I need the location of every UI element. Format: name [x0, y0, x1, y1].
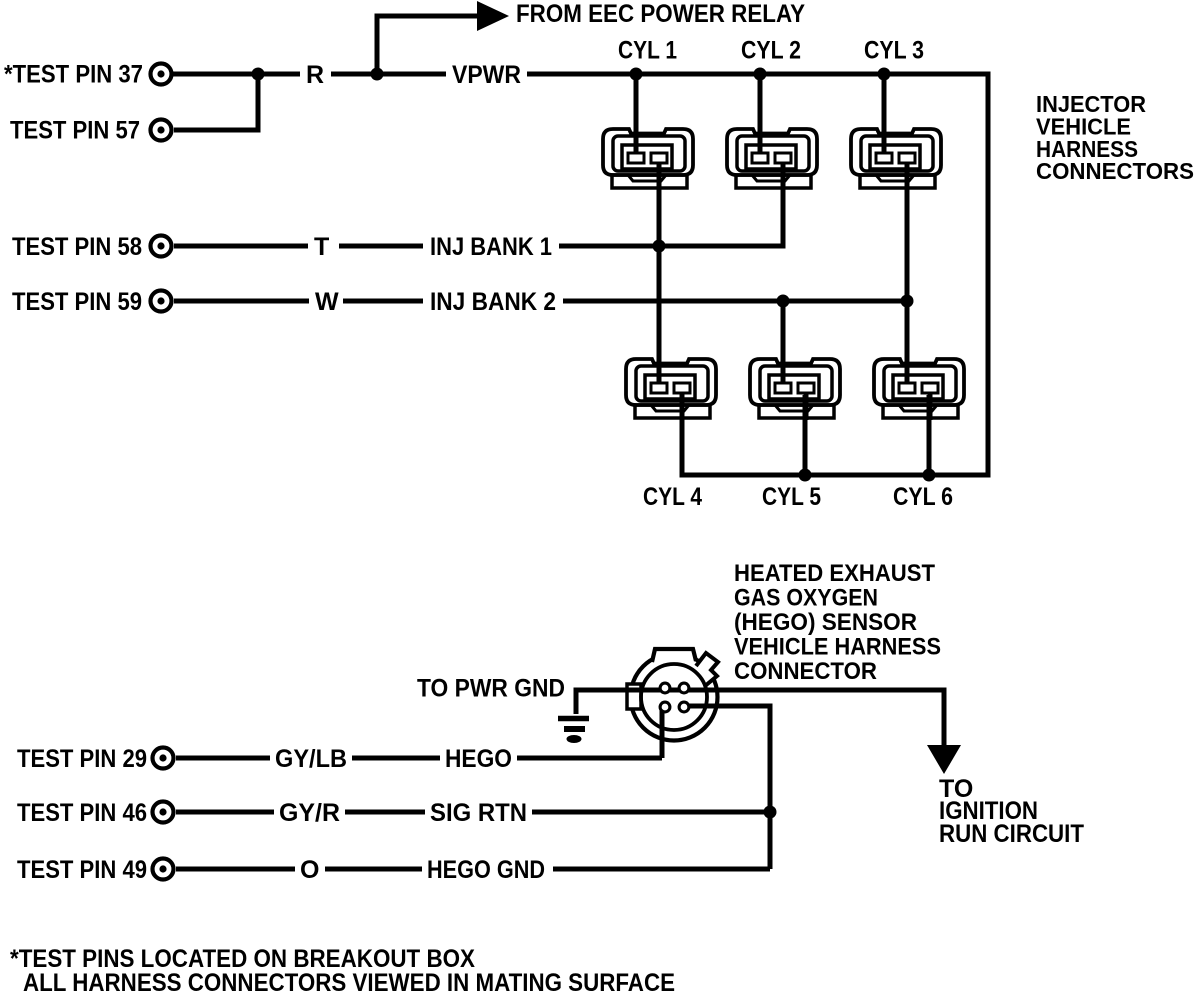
- svg-text:CYL 6: CYL 6: [893, 483, 953, 511]
- svg-text:INJ BANK 1: INJ BANK 1: [430, 233, 552, 261]
- svg-text:VPWR: VPWR: [452, 61, 521, 89]
- svg-text:T: T: [314, 233, 329, 261]
- svg-text:RUN CIRCUIT: RUN CIRCUIT: [939, 820, 1084, 848]
- svg-text:W: W: [315, 288, 339, 316]
- svg-text:FROM EEC POWER RELAY: FROM EEC POWER RELAY: [516, 0, 805, 28]
- svg-text:ALL HARNESS CONNECTORS VIEWED: ALL HARNESS CONNECTORS VIEWED IN MATING …: [23, 969, 675, 994]
- svg-text:TEST PIN 49: TEST PIN 49: [17, 856, 147, 884]
- svg-text:GY/R: GY/R: [279, 799, 340, 827]
- svg-text:CONNECTORS: CONNECTORS: [1036, 158, 1194, 184]
- svg-text:GAS OXYGEN: GAS OXYGEN: [734, 585, 878, 612]
- svg-text:O: O: [300, 856, 319, 884]
- svg-text:HEATED EXHAUST: HEATED EXHAUST: [734, 560, 935, 587]
- svg-text:*TEST PIN 37: *TEST PIN 37: [4, 61, 143, 89]
- svg-text:TO PWR GND: TO PWR GND: [417, 675, 565, 703]
- svg-text:TEST PIN 58: TEST PIN 58: [12, 233, 142, 261]
- svg-text:TEST PIN 46: TEST PIN 46: [17, 799, 147, 827]
- svg-text:GY/LB: GY/LB: [275, 745, 347, 773]
- svg-text:CYL 5: CYL 5: [762, 483, 821, 511]
- svg-text:CYL 1: CYL 1: [618, 37, 677, 65]
- svg-text:TEST PIN 29: TEST PIN 29: [17, 745, 147, 773]
- svg-text:(HEGO) SENSOR: (HEGO) SENSOR: [734, 609, 917, 636]
- svg-text:CYL 2: CYL 2: [741, 37, 801, 65]
- svg-text:VEHICLE HARNESS: VEHICLE HARNESS: [734, 634, 941, 661]
- svg-text:HEGO: HEGO: [445, 745, 512, 773]
- svg-text:INJ BANK 2: INJ BANK 2: [430, 288, 556, 316]
- svg-text:SIG RTN: SIG RTN: [430, 799, 527, 827]
- svg-text:CONNECTOR: CONNECTOR: [734, 658, 877, 685]
- svg-text:TEST PIN 57: TEST PIN 57: [10, 117, 140, 145]
- svg-text:CYL 3: CYL 3: [864, 37, 924, 65]
- svg-text:TEST PIN 59: TEST PIN 59: [12, 288, 142, 316]
- svg-text:R: R: [306, 61, 324, 89]
- svg-text:HEGO GND: HEGO GND: [427, 856, 545, 884]
- svg-text:CYL 4: CYL 4: [643, 483, 702, 511]
